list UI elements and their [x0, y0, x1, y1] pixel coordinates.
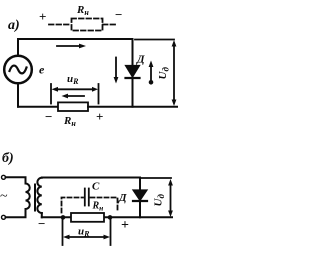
current arrow through Rn (circuit a)	[62, 94, 85, 99]
wire right / diode branch (circuit a)	[132, 39, 134, 107]
svg-text:Д: Д	[136, 54, 145, 66]
tick to Ud arrow (circuit b, top)	[140, 177, 171, 179]
wire secondary bottom stub	[41, 213, 43, 217]
wire dashed left of Rn	[49, 24, 71, 26]
wire left lower (circuit a)	[17, 84, 19, 107]
capacitor branch dashed wire right	[91, 198, 118, 213]
uR measuring tick right (circuit b)	[110, 219, 112, 245]
uR measuring arrow (circuit a)	[52, 87, 99, 92]
uR measuring tick right (circuit a)	[98, 84, 100, 104]
svg-text:а): а)	[8, 18, 20, 33]
transformer primary winding	[26, 184, 30, 210]
svg-text:+: +	[121, 218, 129, 233]
diode D (circuit b)	[133, 190, 147, 201]
capacitor branch dashed wire left	[62, 198, 84, 213]
transformer secondary winding	[37, 178, 41, 213]
uR measuring tick left (circuit a)	[50, 84, 52, 104]
svg-text:б): б)	[2, 151, 14, 166]
wire bottom right (circuit b)	[105, 216, 172, 218]
terminal bottom (circuit b)	[2, 215, 6, 219]
resistor Rn (circuit b)	[71, 213, 104, 222]
current arrow down (left of diode)	[114, 58, 119, 84]
transformer core	[34, 185, 36, 211]
wire top (circuit b)	[42, 177, 140, 179]
svg-text:−: −	[45, 109, 52, 124]
junction dot left (circuit b)	[61, 215, 66, 220]
svg-text:Д: Д	[118, 192, 127, 204]
current arrow (top wire)	[57, 44, 86, 49]
wire left upper (circuit a)	[17, 39, 19, 56]
wire diode branch (circuit b)	[139, 178, 141, 218]
wire bottom left (circuit a)	[18, 106, 58, 108]
capacitor C plates	[84, 189, 86, 206]
wire primary bottom (circuit b)	[6, 209, 26, 217]
svg-text:e: e	[39, 63, 45, 77]
svg-text:−: −	[38, 216, 45, 231]
tick to Ud arrow (circuit a, top)	[135, 39, 174, 41]
wire bottom (circuit b)	[42, 216, 70, 218]
svg-text:C: C	[92, 181, 100, 193]
uR measuring arrow (circuit b)	[63, 235, 110, 240]
diode D (circuit a)	[126, 66, 140, 78]
wire dashed right of Rn	[103, 24, 117, 26]
terminal top (circuit b)	[2, 175, 6, 179]
wire bottom right (circuit a)	[88, 106, 177, 108]
uR measuring tick left (circuit b)	[62, 219, 64, 245]
resistor Rn (dashed box, circuit a)	[72, 19, 103, 31]
source e (AC)	[4, 56, 32, 84]
svg-text:+: +	[96, 109, 103, 124]
svg-text:+: +	[39, 9, 46, 24]
Ud measuring arrow (circuit b)	[168, 179, 173, 217]
svg-text:−: −	[115, 7, 122, 22]
wire top (circuit a)	[18, 38, 133, 40]
voltage arrow with dot (circuit a)	[149, 61, 154, 85]
resistor Rn (circuit a, bottom)	[58, 102, 88, 111]
Ud measuring arrow (circuit a)	[172, 40, 177, 106]
svg-text:~: ~	[0, 189, 8, 204]
wire primary top (circuit b)	[6, 177, 26, 183]
junction dot right (circuit b)	[108, 215, 113, 220]
